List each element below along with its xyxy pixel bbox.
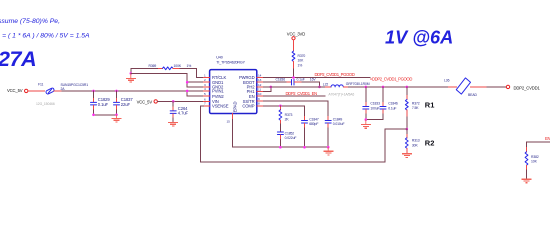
svg-text:100K: 100K xyxy=(174,64,182,68)
capacitor C1852 0.022uF (comp) xyxy=(277,131,296,147)
pin 8 COMP xyxy=(242,102,263,109)
svg-text:EN: EN xyxy=(545,136,550,141)
wire EN net xyxy=(264,95,326,97)
junction C1849 bottom xyxy=(327,146,330,149)
resistor R369 100K 1% (RT/CLK to GND) xyxy=(131,64,197,74)
junction PH tie xyxy=(270,86,273,89)
pin 7 VSENSE xyxy=(204,102,229,109)
svg-text:12: 12 xyxy=(258,83,262,87)
svg-text:DDP2_CVDD1_EN: DDP2_CVDD1_EN xyxy=(286,91,318,96)
node VCC_3VD power xyxy=(287,32,305,40)
svg-text:10K: 10K xyxy=(298,59,305,63)
capacitor C1847 680pF xyxy=(302,117,319,147)
svg-text:0.010uF: 0.010uF xyxy=(333,122,345,126)
svg-text:SUN15PGC1C5R1: SUN15PGC1C5R1 xyxy=(61,83,89,87)
capacitor C1829 0.1uF xyxy=(91,91,111,115)
svg-text:R370: R370 xyxy=(298,54,306,58)
svg-text:10K: 10K xyxy=(531,160,538,164)
svg-text:L22: L22 xyxy=(323,82,329,86)
junction C1837 top xyxy=(115,90,118,93)
junction caps bottom left xyxy=(92,114,95,117)
resistor R382 10K pulldown xyxy=(525,152,539,178)
node VCC_5V (input, left) xyxy=(7,88,28,93)
node DDP2_CVDD1 off-page xyxy=(506,85,540,90)
svg-text:ssume (75-80)% Pe,: ssume (75-80)% Pe, xyxy=(0,18,60,25)
svg-text:C1846: C1846 xyxy=(388,102,398,106)
svg-text:VCC_3VD: VCC_3VD xyxy=(287,32,305,37)
capacitor C1833 100uF xyxy=(363,87,380,120)
capacitor C264 4.7uF xyxy=(170,101,188,121)
wire VCC_5V to fuse F11 xyxy=(28,90,45,92)
pin 3 GND2 xyxy=(204,83,225,90)
pin 9 SS/TR xyxy=(243,97,264,104)
junction C1833 bottom xyxy=(365,118,368,121)
pin 4 PVIN1 xyxy=(204,87,225,94)
ground under input caps xyxy=(112,115,122,122)
pin 1 RT/CLK xyxy=(204,73,227,80)
svg-text:R369: R369 xyxy=(149,64,157,68)
ground at R369 xyxy=(126,73,136,82)
svg-text:0.1uF: 0.1uF xyxy=(98,102,109,107)
svg-text:0.1uF: 0.1uF xyxy=(297,78,305,82)
svg-text:16V: 16V xyxy=(310,78,317,82)
pin 11 PH1 xyxy=(247,87,264,94)
svg-text:«DDP2_CVDD1_PGOOD: «DDP2_CVDD1_PGOOD xyxy=(370,76,412,81)
junction R373 top on COMP xyxy=(279,105,282,108)
resistor R313 30K (R2 divider bottom) xyxy=(405,129,419,153)
svg-text:L36: L36 xyxy=(444,78,450,82)
svg-text:C1847: C1847 xyxy=(309,117,319,121)
svg-text:COMP: COMP xyxy=(242,104,254,109)
wire SS/TR to C1849 xyxy=(264,101,329,116)
svg-text:22uF: 22uF xyxy=(121,102,131,107)
pin 15 EPAD xyxy=(227,102,238,124)
svg-text:R2: R2 xyxy=(425,139,435,148)
svg-text:DDP2_CVDD1: DDP2_CVDD1 xyxy=(514,85,541,90)
svg-text:11: 11 xyxy=(258,87,261,91)
ground at comp rail xyxy=(323,147,333,155)
svg-text:C1852: C1852 xyxy=(285,131,295,135)
svg-text:1%: 1% xyxy=(298,63,303,67)
resistor R372 7.5K (R1 divider top) xyxy=(405,87,419,129)
junction R370 bottom on PWRGD xyxy=(292,76,295,79)
svg-text:F11: F11 xyxy=(38,83,44,87)
svg-text:VSENSE: VSENSE xyxy=(212,104,229,109)
junction feedback tap xyxy=(406,128,409,131)
wire input caps bottom rail xyxy=(94,114,117,116)
pin 13 BOOT xyxy=(243,78,263,85)
svg-text:PVIN1: PVIN1 xyxy=(212,89,224,94)
svg-text:1%: 1% xyxy=(187,64,192,68)
capacitor C1849 0.010uF (soft start) xyxy=(325,117,344,147)
svg-text:0.022uF: 0.022uF xyxy=(285,136,297,140)
junction R369/GND rail xyxy=(130,72,133,75)
svg-text:100uF: 100uF xyxy=(370,106,379,110)
pin 2 GND1 xyxy=(204,78,225,85)
junction GND1 tie xyxy=(186,81,189,84)
wire PVIN rail drop to PVIN2 xyxy=(187,91,203,96)
junction C1847 bottom xyxy=(303,146,306,149)
op-amp U40 TI_TPS54620RGY regulator body xyxy=(210,56,257,114)
svg-text:U40: U40 xyxy=(216,56,222,60)
ground under C264 xyxy=(168,122,178,127)
capacitor C1837 22uF xyxy=(114,91,134,115)
svg-text:R373: R373 xyxy=(285,113,293,117)
svg-text:R313: R313 xyxy=(412,139,420,143)
svg-text:680pF: 680pF xyxy=(309,122,318,126)
junction C1852 bottom xyxy=(279,146,282,149)
ground under R313 xyxy=(402,154,412,158)
svg-text:15: 15 xyxy=(227,120,231,124)
wire VSENSE feedback route xyxy=(200,106,406,162)
wire EPAD to comp ground rail xyxy=(233,120,329,148)
pin 6 VIN xyxy=(204,97,219,104)
svg-text:30K: 30K xyxy=(412,143,419,147)
svg-text:27A: 27A xyxy=(0,47,36,71)
node VCC_5V (VIN side) xyxy=(137,99,158,104)
svg-text:VCC_5V: VCC_5V xyxy=(137,99,153,104)
wire VCC_5V to VIN xyxy=(157,100,203,102)
wire COMP net xyxy=(264,106,305,117)
svg-text:A7047(T)+1A/5A6: A7047(T)+1A/5A6 xyxy=(328,93,354,97)
svg-text:14: 14 xyxy=(258,73,262,77)
wire right edge to R382 xyxy=(527,142,550,148)
svg-text:BEAD: BEAD xyxy=(468,93,477,97)
svg-text:C1849: C1849 xyxy=(333,117,343,121)
svg-text:n = ( 1 * 6A ) / 80% / 5V = 1.: n = ( 1 * 6A ) / 80% / 5V = 1.5A xyxy=(0,32,90,39)
wire R369 to RT/CLK pin xyxy=(197,68,204,77)
svg-text:0.1uF: 0.1uF xyxy=(388,106,396,110)
wire GND rail to GND1/GND2 pins xyxy=(131,73,204,87)
junction C264 top xyxy=(172,100,175,103)
junction BOOT/PH xyxy=(318,86,321,89)
ground under output caps xyxy=(361,120,371,129)
svg-text:DDP2_CVDD1_PGOOD: DDP2_CVDD1_PGOOD xyxy=(315,72,355,77)
svg-text:R382: R382 xyxy=(531,155,539,159)
svg-text:12G_150466: 12G_150466 xyxy=(36,102,55,106)
capacitor C1846 0.1uF xyxy=(380,87,398,120)
resistor R370 10K 1% pull-up xyxy=(292,40,305,78)
junction caps bottom right xyxy=(115,114,118,117)
junction PVIN rail at x187 xyxy=(186,90,189,93)
fuse F11 2A SUN15PGC1C5R1 xyxy=(36,83,88,106)
svg-text:10: 10 xyxy=(258,92,262,96)
wire PVIN rail to PVIN1 pin xyxy=(187,90,203,92)
pin 10 EN xyxy=(249,92,264,99)
inductor L22 GRF7030-1R0M xyxy=(323,82,370,87)
pin 12 PH2 xyxy=(247,83,264,90)
wire bead to DDP2_CVDD1 xyxy=(487,86,506,88)
svg-text:EPAD: EPAD xyxy=(233,102,238,113)
wire fuse to PVIN rail xyxy=(54,90,62,92)
ferrite bead L36 BEAD xyxy=(444,78,487,97)
wire PH1 tie to PH2 xyxy=(264,87,271,92)
svg-text:R1: R1 xyxy=(425,100,435,109)
wire output caps ground rail xyxy=(366,119,383,121)
wire BOOT drop to PH xyxy=(319,82,321,87)
svg-text:4.7uF: 4.7uF xyxy=(178,111,189,116)
junction C1829 top xyxy=(92,90,95,93)
wire PWRGD net xyxy=(264,77,371,79)
svg-text:R372: R372 xyxy=(412,101,420,105)
svg-text:TI_TPS54620RGY: TI_TPS54620RGY xyxy=(216,61,245,65)
ground under R382 xyxy=(522,179,532,183)
junction C1833 top xyxy=(365,86,368,89)
capacitor C1836 0.1uF 16V (BOOT) xyxy=(264,78,320,86)
junction C1846 top xyxy=(382,86,385,89)
svg-text:VCC_5V: VCC_5V xyxy=(7,88,23,93)
wire PH2 to L22 xyxy=(264,86,326,88)
resistor R373 2K (comp) xyxy=(279,106,293,132)
svg-text:13: 13 xyxy=(258,78,262,82)
junction R372 top xyxy=(406,86,409,89)
svg-text:7.5K: 7.5K xyxy=(412,106,419,110)
svg-text:C1836: C1836 xyxy=(276,78,286,82)
svg-text:C1833: C1833 xyxy=(370,102,380,106)
svg-text:1V @6A: 1V @6A xyxy=(385,28,453,48)
pin 14 PWRGD xyxy=(239,73,264,80)
pin 5 PVIN2 xyxy=(204,92,225,99)
wire output rail xyxy=(349,86,456,88)
svg-text:GRF7030-1R0M: GRF7030-1R0M xyxy=(346,82,370,86)
